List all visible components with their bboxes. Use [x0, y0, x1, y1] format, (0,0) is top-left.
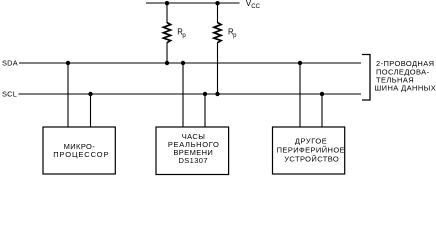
value label Rp (right): [228, 28, 237, 39]
wire VCC to resistor R2: [217, 3, 219, 23]
wire VCC rail: [146, 2, 240, 4]
wire SDA to microprocessor pin: [67, 63, 69, 127]
node junction SCL-peripheral: [320, 92, 324, 96]
node junction SDA-DS1307: [181, 61, 185, 65]
wire SCL to microprocessor pin: [90, 94, 92, 127]
wire SCL to peripheral pin: [321, 94, 323, 127]
block U3 other peripheral device: [273, 127, 345, 174]
wire resistor R1 to SDA: [166, 43, 168, 64]
svg-text:УСТРОЙСТВО: УСТРОЙСТВО: [284, 154, 339, 163]
annotation 2-wire serial data bus: [374, 59, 436, 93]
wire SCL to DS1307 pin: [204, 94, 206, 127]
node junction SDA-microprocessor: [66, 61, 70, 65]
block U2 real-time clock DS1307: [156, 127, 229, 175]
wire SDA to DS1307 pin: [182, 63, 184, 127]
svg-text:DS1307: DS1307: [178, 156, 208, 165]
svg-text:ШИНА ДАННЫХ: ШИНА ДАННЫХ: [374, 84, 436, 93]
node junction VCC-R1: [165, 1, 169, 5]
wire resistor R2 to SCL: [217, 43, 219, 95]
svg-text:ПЕРИФЕРИЙНОЕ: ПЕРИФЕРИЙНОЕ: [277, 145, 345, 154]
node junction VCC-R2: [215, 1, 219, 5]
node junction SCL-R2: [215, 92, 219, 96]
svg-text:SCL: SCL: [2, 90, 17, 99]
svg-text:ПРОЦЕССОР: ПРОЦЕССОР: [53, 150, 109, 159]
node junction SCL-DS1307: [203, 92, 207, 96]
node junction SDA-peripheral: [298, 61, 302, 65]
bracket 2-wire serial bus: [362, 55, 370, 101]
svg-text:CC: CC: [251, 4, 260, 10]
block U1 microprocessor: [43, 127, 115, 174]
value label Rp (left): [177, 28, 186, 39]
resistor Rp (right, SCL pull-up): [214, 23, 221, 43]
wire VCC to resistor R1: [166, 3, 168, 23]
wire SDA to peripheral pin: [299, 63, 301, 127]
svg-text:ДРУГОЕ: ДРУГОЕ: [295, 136, 327, 145]
wire SCL bus: [19, 93, 362, 95]
wire SDA bus: [19, 62, 361, 64]
node junction SDA-R1: [165, 61, 169, 65]
resistor Rp (left, SDA pull-up): [163, 23, 170, 43]
net label VCC: [246, 0, 261, 10]
svg-text:SDA: SDA: [2, 58, 18, 67]
node junction SCL-microprocessor: [88, 92, 92, 96]
